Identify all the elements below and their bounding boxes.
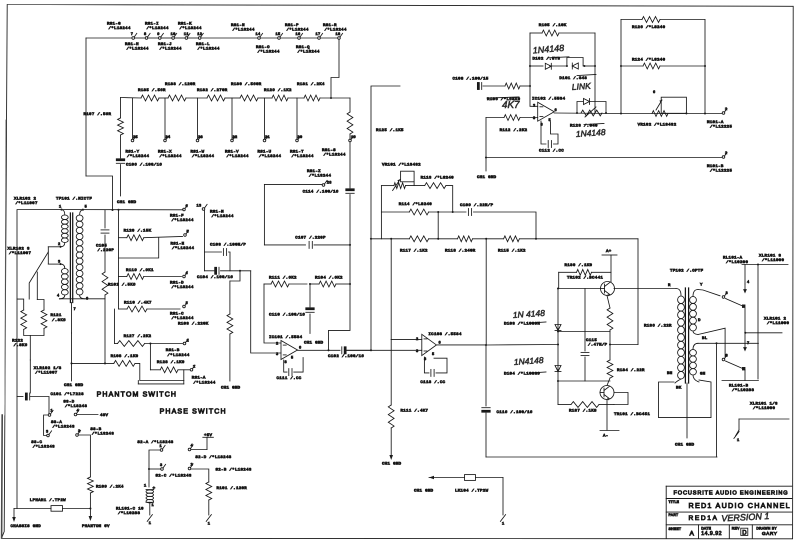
svg-text:RED1A: RED1A [689, 515, 719, 522]
node junction x716 y343 [715, 342, 717, 344]
svg-text:/*L13243: /*L13243 [92, 432, 114, 437]
resistor R131 .2K4 [297, 82, 325, 101]
svg-text:/*L13244: /*L13244 [172, 316, 194, 321]
wire C105 to R102 [104, 235, 106, 272]
capacitor C110 .100/16 polarized [269, 284, 314, 333]
svg-text:A: A [690, 531, 695, 538]
wire R112 bias column down to rail [485, 118, 487, 158]
svg-text:RS1-F: RS1-F [170, 215, 184, 219]
wire ladder vertical x118 from input rail [118, 210, 120, 277]
svg-text:RED1 AUDIO CHANNEL: RED1 AUDIO CHANNEL [689, 501, 791, 510]
svg-text:TF101 /.MICTF: TF101 /.MICTF [56, 197, 92, 202]
wire C109 right [474, 212, 537, 239]
label XLR102 3 [8, 248, 32, 257]
switch contact RS1 pin 22 RS1-V [231, 136, 238, 142]
svg-text:XLR101 3: XLR101 3 [759, 255, 781, 259]
svg-text:5: 5 [432, 353, 435, 357]
svg-text:CH1 GND: CH1 GND [382, 463, 402, 467]
wire chain segment [258, 97, 272, 99]
svg-text:R120 /.15K: R120 /.15K [124, 228, 152, 233]
wire drop to contact 24 [164, 98, 166, 139]
node junction x486 y240 [485, 238, 487, 240]
wire driver column x558 down [557, 289, 559, 405]
svg-text:S3-B: S3-B [90, 428, 101, 432]
node junction C104 row [239, 270, 241, 272]
svg-text:R132 /.270R: R132 /.270R [197, 88, 228, 93]
svg-text:/*L13244: /*L13244 [325, 28, 347, 33]
svg-text:TF102 /.OPTF: TF102 /.OPTF [670, 269, 704, 274]
svg-text:RS1-D: RS1-D [170, 282, 184, 286]
svg-text:RS1-X: RS1-X [158, 151, 172, 155]
wire contact19 to C114 [349, 142, 351, 188]
transformer TF102 core [685, 288, 688, 383]
wire R101 to slash [208, 500, 210, 515]
svg-text:14: 14 [256, 33, 261, 37]
svg-text:2: 2 [533, 105, 536, 109]
svg-text:C114 /.100/16: C114 /.100/16 [303, 190, 339, 195]
capacitor C107 .220P [295, 235, 326, 248]
transistor TR102 BC441 [567, 276, 615, 297]
svg-text:PHANTOM 0V: PHANTOM 0V [82, 525, 110, 529]
wire output node row [610, 344, 638, 346]
svg-text:PART: PART [669, 513, 679, 517]
svg-text:SHEET: SHEET [669, 527, 682, 531]
switch contact S2-D pin4 [188, 445, 232, 461]
wire chain right end to corner [320, 97, 350, 99]
svg-text:C108 /.100/15: C108 /.100/15 [453, 77, 489, 82]
wire R118 to R115 [473, 238, 504, 240]
capacitor C101 L7223 polarized [17, 392, 84, 400]
switch contact RS1-B pin2 [166, 339, 190, 358]
wire pin2 bias column down [390, 340, 392, 405]
svg-text:/*L11000: /*L11000 [753, 406, 775, 411]
wire C107 row right [314, 244, 350, 246]
svg-text:R133 /.120R: R133 /.120R [165, 82, 196, 87]
svg-text:6: 6 [186, 205, 189, 209]
wire right feedback column x595 [594, 33, 596, 113]
wire ground stub below rail [485, 158, 487, 172]
svg-text:C115: C115 [586, 339, 597, 343]
svg-text:RL101-C 10: RL101-C 10 [116, 508, 144, 512]
capacitor C104 .100/16 polarized [197, 267, 251, 280]
svg-text:DRAWN BY: DRAWN BY [756, 526, 777, 530]
wire S3-B to R109 [79, 435, 91, 477]
svg-text:C104 /.100/16: C104 /.100/16 [197, 275, 233, 280]
svg-text:LPHAH1 /.TP2W: LPHAH1 /.TP2W [30, 498, 66, 503]
wire R122 top stub [17, 299, 24, 310]
wire C107 row left [264, 244, 305, 246]
svg-text:RS1-M: RS1-M [210, 211, 224, 215]
resistor R119 .9K1 [119, 268, 182, 279]
wire R111 feedback left vertical [264, 284, 281, 343]
wire M101-B rail [486, 157, 722, 159]
wire ladder x119 down [118, 277, 120, 310]
svg-text:C103 /.100N/P: C103 /.100N/P [210, 243, 246, 248]
svg-text:/*L13244: /*L13244 [324, 153, 346, 158]
svg-text:D104 /*L10339: D104 /*L10339 [504, 372, 540, 377]
wire output rail to driver [486, 344, 558, 347]
resistor R112 .2K2 [486, 115, 538, 133]
svg-text:2: 2 [276, 343, 279, 347]
svg-text:XLR102 1/3: XLR102 1/3 [34, 366, 62, 371]
svg-text:CH1 GND: CH1 GND [477, 176, 497, 180]
resistor R104 .6K2 [310, 276, 350, 287]
svg-text:/*L10288: /*L10288 [732, 388, 754, 393]
wire Y lead to contact 3 [698, 290, 720, 296]
wire IC103 pin2 input [391, 339, 422, 341]
title block REV D cell [732, 526, 748, 536]
svg-text:/*L12225: /*L12225 [710, 169, 732, 174]
svg-text:RS1-T: RS1-T [290, 151, 304, 155]
resistor R101 .120R vertical [206, 482, 247, 500]
svg-text:IC101 /.5534: IC101 /.5534 [269, 335, 303, 340]
label RS1-C [170, 313, 194, 322]
svg-text:7: 7 [74, 308, 77, 312]
wire chain segment [225, 97, 240, 99]
relay arm slash pole1 [726, 299, 746, 308]
resistor R125 .1K5 vertical [347, 98, 404, 134]
svg-text:XLR102 2: XLR102 2 [14, 198, 36, 202]
wire pin2 bias column from feedback row [390, 239, 392, 340]
svg-text:CH1 GND: CH1 GND [675, 444, 695, 448]
svg-text:1: 1 [725, 108, 728, 112]
svg-text:1N4148: 1N4148 [513, 355, 544, 367]
node junction x705 y113 [704, 112, 706, 114]
svg-text:16: 16 [296, 33, 301, 37]
switch contact RS1 pin 7 [131, 33, 137, 39]
capacitor C102 .100/16 polarized [328, 347, 364, 359]
svg-text:C111 /.CC: C111 /.CC [277, 376, 302, 381]
resistor R130 .1K0 [565, 263, 593, 275]
svg-text:S3-D: S3-D [63, 401, 74, 405]
wire C103 right leg down [229, 252, 231, 271]
svg-text:R131 /.2K4: R131 /.2K4 [297, 82, 325, 87]
switch contact RS1 pin 9 [157, 33, 163, 39]
capacitor C112 .CC compensation loop [539, 121, 564, 154]
switch contact S3 pin4 to 48V [74, 410, 108, 419]
svg-text:5: 5 [187, 231, 190, 235]
wire C104 to IC101 pin3 [251, 271, 281, 353]
node junction x558 y331 [557, 330, 559, 332]
svg-text:S2-B /*L13243: S2-B /*L13243 [216, 467, 252, 472]
svg-text:C116 /.100/16: C116 /.100/16 [497, 410, 533, 415]
svg-text:/*L13243: /*L13243 [65, 404, 87, 409]
resistor R126 LS240 [621, 17, 705, 30]
node junction x530 y86 [529, 85, 531, 87]
svg-text:C112 /.CC: C112 /.CC [539, 149, 564, 154]
svg-text:28: 28 [327, 181, 332, 185]
relay coil RL101-C [116, 485, 156, 517]
wire feedback row y240 left [371, 238, 409, 240]
power label +5V [203, 434, 214, 450]
svg-text:/*L13244: /*L13244 [180, 26, 202, 31]
svg-text:TITLE: TITLE [669, 500, 680, 504]
node junction R104 right [349, 283, 351, 285]
wire R121 R122 bottoms join [24, 328, 44, 360]
resistor R122 .3K6 vertical [12, 310, 28, 348]
label XLR101 2 [764, 318, 789, 327]
svg-text:/*L13244: /*L13244 [172, 285, 194, 290]
resistor R103 .220K vertical [178, 281, 233, 381]
transformer TF101 primary winding lower [57, 264, 68, 299]
switch contact RS1 pin 17 [316, 33, 323, 39]
fuse link LK104 .TP2W [414, 475, 503, 494]
wire output stage right edge up to BL [716, 343, 718, 457]
svg-text:/*L13244: /*L13244 [192, 154, 214, 159]
switch contact RS1-M pin13 [197, 204, 234, 219]
switch contact RS1 pin 21 RS1-U [263, 136, 270, 142]
svg-text:/*L13244: /*L13244 [127, 154, 149, 159]
resistor R113 LS240 [421, 176, 455, 189]
svg-text:VR102 /*L13432: VR102 /*L13432 [638, 122, 677, 127]
relay arm slash pole2 [726, 361, 746, 370]
node junction x437 y240 [437, 212, 439, 240]
resistor R118 .240R [445, 236, 476, 254]
node junction x371 y240 [370, 238, 372, 240]
switch contact RS1 pin 16 [296, 33, 303, 39]
wire R108 right snake to RS1-A [135, 363, 184, 380]
svg-text:5: 5 [291, 357, 294, 361]
transistor TR101 BC451 [600, 386, 650, 418]
svg-text:DATE: DATE [701, 526, 711, 530]
transformer TF102 secondary lower [690, 337, 708, 382]
svg-text:3: 3 [46, 431, 49, 435]
capacitor C114 .100/16 polarized [303, 189, 355, 195]
title block TITLE field [669, 500, 791, 510]
svg-text:R114 /*LS240: R114 /*LS240 [399, 202, 433, 207]
svg-text:/*L11007: /*L11007 [16, 201, 38, 206]
wire bus segment [281, 37, 298, 39]
svg-text:4: 4 [747, 281, 750, 285]
svg-text:R124 /*LS240: R124 /*LS240 [632, 58, 666, 63]
diode D101 LINK with loop [559, 58, 596, 82]
node junction S2 column [148, 468, 150, 470]
svg-text:IC102 /.5534: IC102 /.5534 [532, 97, 566, 102]
open slash chassis XLR101 [734, 430, 740, 443]
svg-text:R125 /.1K5: R125 /.1K5 [376, 128, 404, 133]
svg-text:/.47N/P: /.47N/P [588, 343, 608, 348]
svg-text:8: 8 [726, 355, 729, 359]
svg-text:/*L11000: /*L11000 [767, 321, 789, 326]
svg-text:20: 20 [298, 136, 303, 140]
op-amp IC102 5534 [532, 97, 566, 128]
svg-text:6: 6 [86, 298, 89, 302]
svg-text:VERSION 1: VERSION 1 [721, 511, 769, 523]
wire left column to C101 [16, 210, 18, 397]
svg-text:7: 7 [131, 33, 134, 37]
svg-text:C101 /*L7223: C101 /*L7223 [51, 392, 85, 397]
svg-text:S3-C: S3-C [31, 441, 42, 445]
relay contact 4 arrow [743, 265, 749, 294]
fuse link LPHAH1 .TP2W [14, 498, 90, 511]
switch contact S3-B pin2 [76, 428, 115, 437]
wire S3-A to S3-C left leg [44, 415, 48, 436]
wire bottom cross connect [722, 380, 758, 382]
svg-text:4: 4 [77, 410, 80, 414]
wire TR101 base loop [614, 393, 628, 405]
node junction x438 y212 [437, 211, 439, 213]
svg-text:3: 3 [276, 353, 279, 357]
wire emitter node down [609, 330, 611, 345]
wire TF101 bottom rail [59, 298, 105, 300]
svg-text:1N 4148: 1N 4148 [512, 308, 545, 320]
wire XLR101-3 node [742, 263, 788, 379]
svg-text:RS1-A: RS1-A [192, 377, 206, 381]
switch contact RS1 pin 23 RS1-W [196, 136, 203, 142]
wire bus segment [261, 37, 278, 39]
svg-text:PHASE SWITCH: PHASE SWITCH [160, 409, 227, 416]
resistor R120 .15K [119, 228, 183, 240]
svg-text:RS1-V: RS1-V [225, 151, 239, 155]
svg-text:/*L11000: /*L11000 [762, 258, 784, 263]
node junction x452 y212 [452, 211, 454, 213]
wire TR102 collector row to TF102 [614, 288, 676, 290]
resistor R106 4K7 handwritten [487, 83, 521, 102]
node junction x328 summing [327, 349, 329, 351]
wire C116 column down from output rail [485, 345, 487, 406]
wire RS1-M down to C104 row [204, 211, 206, 271]
wire bus segment [301, 37, 318, 39]
resistor R111 .6K2 [264, 276, 307, 287]
wire bus segment [161, 37, 171, 39]
transformer TF101 tap pin 2 [48, 243, 60, 247]
svg-text:R113 /*LS240: R113 /*LS240 [421, 176, 455, 181]
svg-text:C113 /.CC: C113 /.CC [420, 380, 445, 385]
resistor R117 .1K2 [400, 236, 429, 254]
wire top bus left segment [86, 37, 132, 39]
switch contact RS1 pin 12 [197, 33, 203, 39]
svg-text:R137 /.1K8: R137 /.1K8 [569, 409, 597, 414]
node junction x536 y240 [535, 238, 537, 240]
svg-text:/*L13244: /*L13244 [259, 154, 281, 159]
wire C108 to R106 [483, 85, 505, 87]
wire IC103 output rail [436, 344, 486, 346]
op-amp IC103 5534 [416, 332, 462, 362]
potentiometer VR102 L13432 [638, 91, 688, 127]
wire feedback box left edge [620, 20, 622, 114]
wire R120 snake to R119 row [119, 238, 159, 258]
wire feedback box right edge [704, 20, 706, 114]
switch contact S2-C pin3 [156, 464, 192, 478]
wire centre tap to ladder bottom [71, 333, 73, 381]
svg-text:/*L10288: /*L10288 [118, 511, 140, 516]
wire drop to contact 20 [296, 98, 298, 139]
capacitor C108 .100/15 polarized [453, 77, 489, 90]
svg-text:+: + [153, 487, 156, 492]
switch contact RS1 pin 20 RS1-T [296, 136, 303, 142]
svg-text:/*L11007: /*L11007 [9, 251, 31, 256]
capacitor C109 .22N/P [460, 203, 494, 216]
wire chain left end [121, 97, 142, 100]
svg-text:4: 4 [57, 295, 60, 299]
svg-text:RS1-N: RS1-N [231, 24, 245, 28]
switch contact RS1 pin 19 RS1-S [349, 136, 356, 142]
svg-text:R107 /.56R: R107 /.56R [84, 112, 112, 117]
label RL101-B [729, 385, 754, 394]
wire D tap lead down to pin8 [698, 328, 725, 357]
transformer TF101 tap pin 3 [48, 261, 60, 265]
svg-text:R126 /*LS240: R126 /*LS240 [632, 25, 666, 30]
wire snake lower rail [138, 381, 184, 384]
svg-text:3: 3 [726, 292, 729, 296]
label RL101-A [723, 257, 748, 266]
wire R107 to C106 [120, 135, 122, 158]
wire bus segment [175, 37, 185, 39]
switch contact RS1-D pin4 [183, 272, 188, 278]
diode D104 1N4148 [504, 366, 561, 377]
wire lower row y381 [558, 380, 610, 382]
svg-text:C106 /.100/16: C106 /.100/16 [126, 163, 162, 168]
label XLR102 1/3 [34, 366, 62, 376]
svg-text:1: 1 [193, 365, 196, 369]
svg-text:/*L13244: /*L13244 [167, 353, 189, 358]
svg-text:R112 /.2K2: R112 /.2K2 [500, 128, 528, 133]
svg-text:D103 /*L1009H: D103 /*L1009H [504, 322, 540, 327]
link replaced resistor R123 with diode loop [570, 99, 606, 129]
resistor R121 .3K6 vertical [41, 310, 66, 328]
svg-text:R134 /.22R: R134 /.22R [617, 368, 645, 373]
wire R102 bottom to TF101 rail [104, 295, 106, 363]
wire TF102 screen lead to ground [686, 383, 688, 438]
svg-text:GARY: GARY [762, 531, 778, 537]
svg-text:CHASSIS GND: CHASSIS GND [11, 525, 42, 529]
svg-text:1: 1 [144, 485, 147, 489]
svg-text:LINK: LINK [571, 81, 591, 92]
switch contact RS1 pin 11 [184, 33, 190, 39]
svg-text:D: D [698, 319, 701, 323]
node junction TF101 pin1 [60, 209, 62, 211]
wire IC103 pin3 input from C102 [347, 349, 422, 351]
switch contact RS1-C pin3 [183, 302, 188, 308]
resistor R135 .56R [138, 88, 166, 101]
svg-text:RS1-Y: RS1-Y [126, 151, 140, 155]
svg-text:C105: C105 [96, 245, 107, 249]
svg-text:/*L13243: /*L13243 [53, 425, 75, 430]
svg-text:XLR101 1/3: XLR101 1/3 [750, 402, 778, 407]
relay contact 7 arrow [743, 341, 749, 352]
wire R137 row [558, 404, 571, 406]
svg-text:R: R [668, 284, 671, 288]
node bus corner at x86 [85, 38, 87, 176]
svg-text:/*L13244: /*L13244 [298, 50, 320, 55]
svg-text:1: 1 [149, 522, 152, 526]
wire chassis row [16, 397, 18, 509]
svg-text:25: 25 [133, 136, 138, 140]
svg-text:2: 2 [191, 464, 194, 468]
diode D102 with strikethrough label [533, 57, 570, 70]
svg-text:XLR101 2: XLR101 2 [764, 318, 786, 322]
svg-text:RS1-U: RS1-U [258, 151, 272, 155]
svg-text:/*L13244: /*L13244 [172, 218, 194, 223]
wire drop to contact 21 [264, 98, 266, 139]
svg-text:R130 /.1K0: R130 /.1K0 [565, 263, 593, 268]
svg-text:R121: R121 [51, 314, 62, 318]
svg-text:R136 /.22R: R136 /.22R [644, 324, 672, 329]
transformer TF101 secondary winding right [76, 206, 88, 302]
svg-text:/*L13244: /*L13244 [212, 214, 234, 219]
svg-text:/*L13244: /*L13244 [287, 28, 309, 33]
svg-text:1: 1 [160, 445, 163, 449]
svg-text:R108 /.1K0: R108 /.1K0 [111, 354, 139, 359]
svg-text:RL101-A: RL101-A [723, 257, 743, 261]
node junction box left R124 [620, 65, 622, 67]
wire C116 to bottom rail [485, 413, 487, 457]
svg-text:4: 4 [191, 445, 194, 449]
wire XLR102-3 angled lead [29, 247, 48, 300]
switch contact RS1 pin 8 [144, 33, 150, 39]
wire R134 to TR101 [607, 378, 610, 386]
node junction tap R108 row [70, 362, 72, 364]
